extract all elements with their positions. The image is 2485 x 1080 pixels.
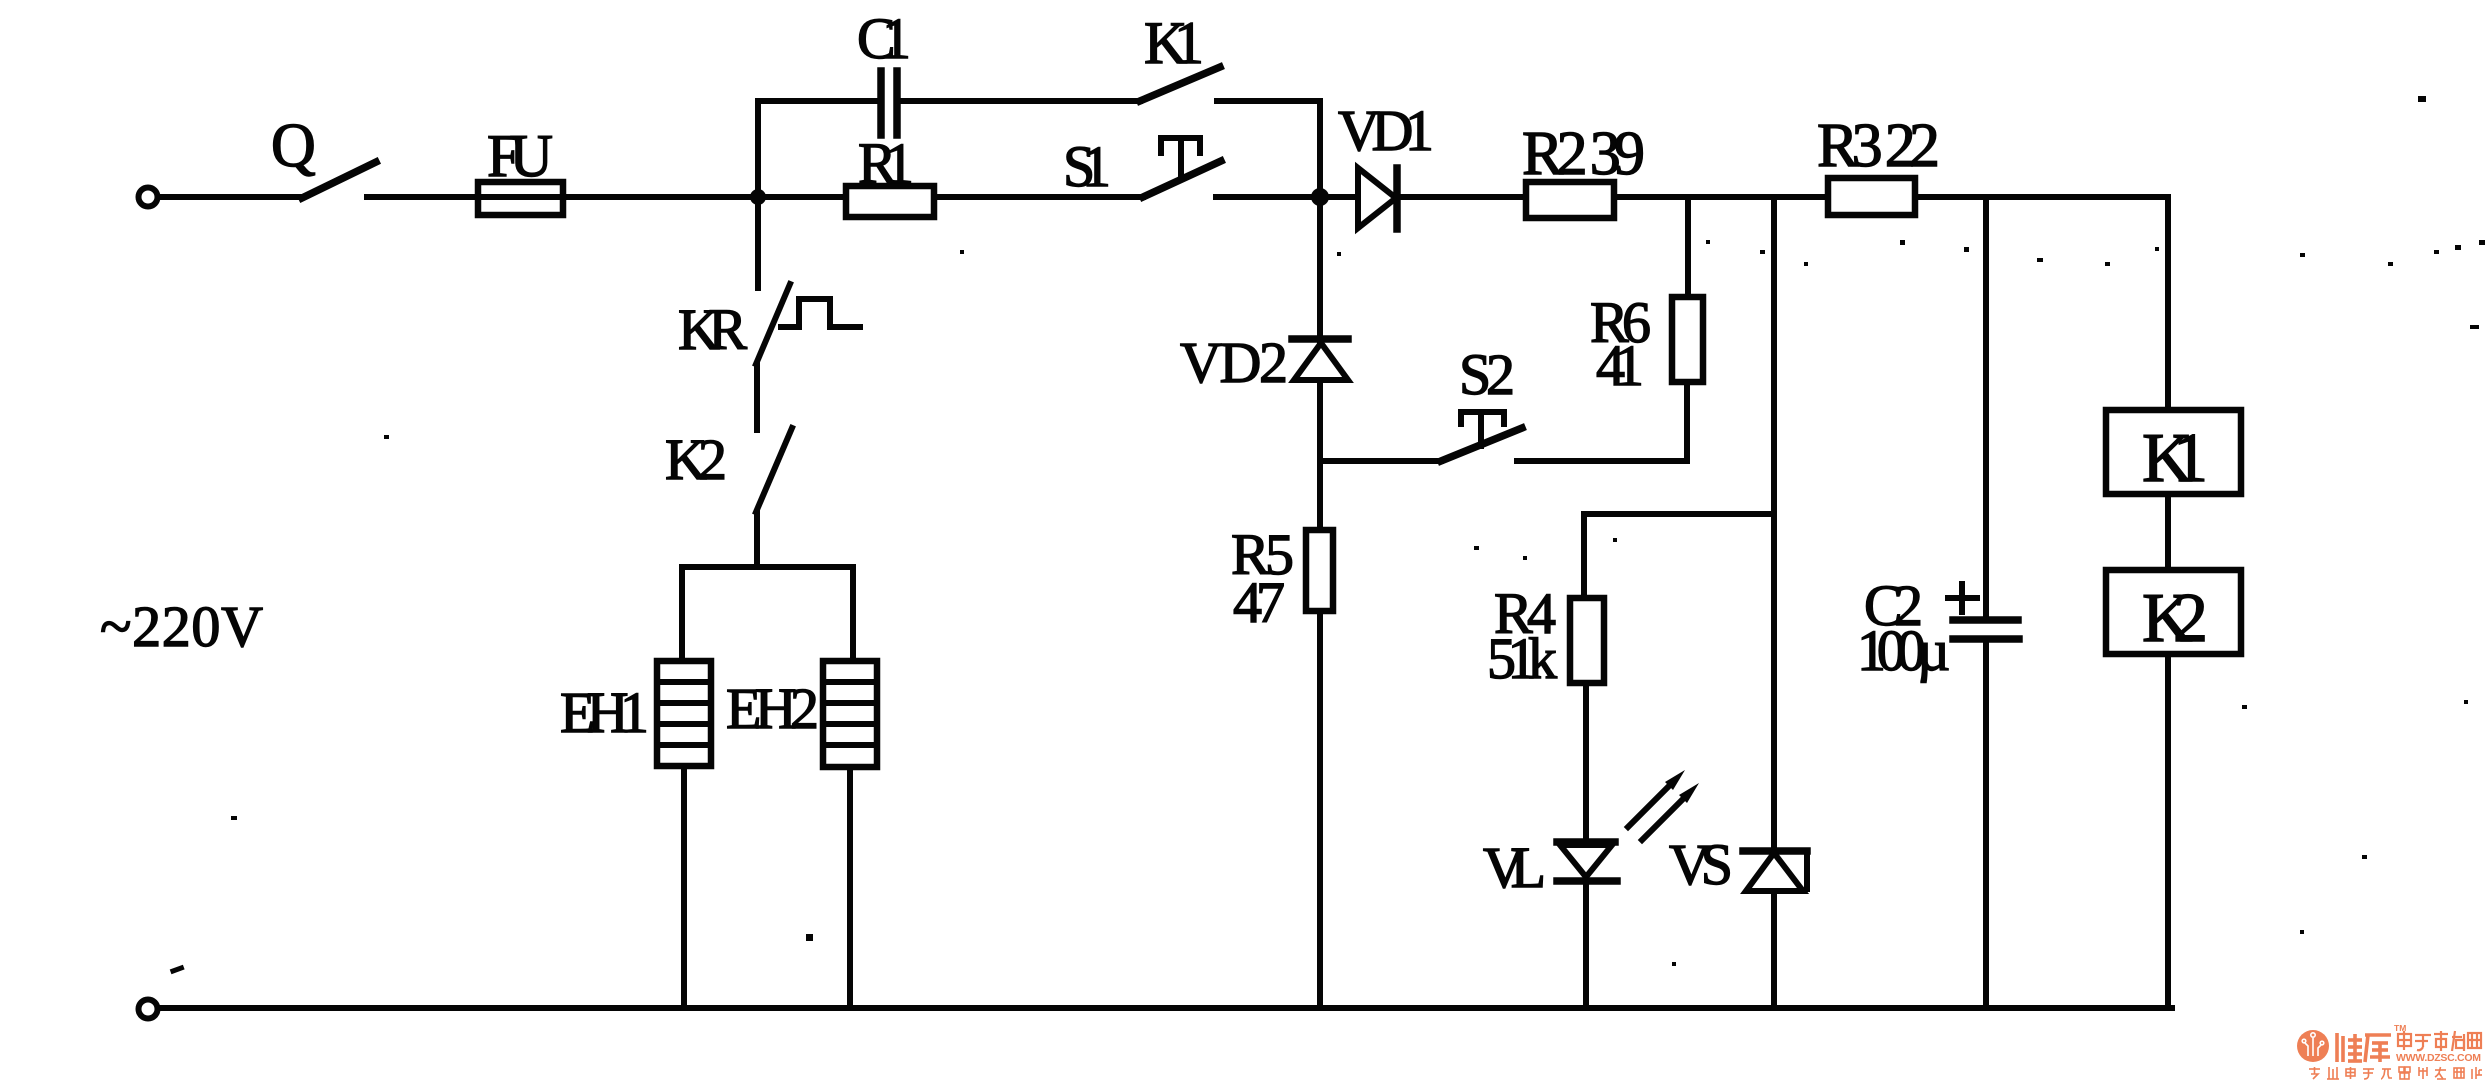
svg-text:K2: K2 (665, 427, 727, 492)
svg-text:K1: K1 (1144, 10, 1204, 76)
svg-text:KR: KR (678, 297, 747, 362)
svg-text:EH1: EH1 (560, 680, 649, 745)
svg-text:R1: R1 (858, 131, 914, 196)
svg-text:R3 22: R3 22 (1817, 112, 1940, 180)
svg-text:FU: FU (487, 123, 553, 189)
svg-text:R2 39: R2 39 (1522, 120, 1645, 188)
svg-text:WWW.DZSC.COM: WWW.DZSC.COM (2396, 1052, 2481, 1064)
svg-text:K2: K2 (2142, 580, 2208, 657)
svg-text:VL: VL (1483, 835, 1546, 900)
svg-text:C1: C1 (857, 6, 911, 71)
svg-text:100µ: 100µ (1857, 618, 1950, 683)
svg-text:S1: S1 (1063, 134, 1111, 199)
svg-text:47: 47 (1233, 570, 1285, 635)
svg-text:VS: VS (1669, 832, 1733, 897)
svg-text:K1: K1 (2142, 420, 2208, 497)
svg-text:VD1: VD1 (1338, 98, 1434, 163)
svg-text:VD2: VD2 (1180, 330, 1288, 395)
svg-text:EH2: EH2 (726, 676, 819, 741)
svg-text:41: 41 (1596, 333, 1644, 398)
svg-text:S2: S2 (1459, 342, 1515, 407)
svg-text:51k: 51k (1487, 626, 1557, 691)
svg-text:~220V: ~220V (100, 594, 263, 659)
svg-text:Q: Q (271, 112, 316, 180)
